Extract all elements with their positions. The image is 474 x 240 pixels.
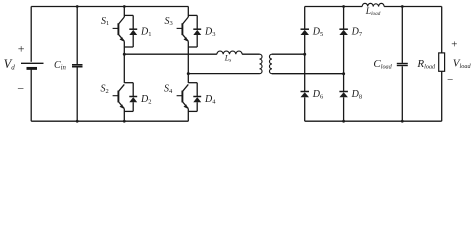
svg-text:D7: D7: [351, 27, 363, 38]
svg-text:Rload: Rload: [416, 58, 436, 70]
svg-text:+: +: [450, 39, 457, 51]
svg-text:Cin: Cin: [54, 60, 67, 72]
svg-text:Ls: Ls: [224, 53, 232, 63]
svg-text:Cload: Cload: [373, 58, 392, 70]
svg-text:D4: D4: [204, 94, 216, 105]
svg-text:Vload: Vload: [453, 58, 472, 70]
svg-text:D5: D5: [312, 27, 323, 38]
svg-text:D1: D1: [140, 27, 151, 38]
svg-text:S1: S1: [101, 16, 109, 27]
svg-text:Lload: Lload: [365, 7, 381, 17]
svg-text:D8: D8: [351, 89, 362, 100]
svg-text:S3: S3: [165, 16, 173, 27]
svg-text:S4: S4: [164, 84, 173, 95]
svg-text:Vd: Vd: [4, 57, 16, 72]
svg-text:D3: D3: [204, 27, 215, 38]
svg-text:D2: D2: [140, 94, 151, 105]
svg-text:S2: S2: [101, 84, 109, 95]
svg-text:+: +: [17, 42, 25, 56]
svg-text:−: −: [16, 82, 24, 96]
svg-text:D6: D6: [312, 89, 324, 100]
svg-text:−: −: [446, 74, 453, 86]
